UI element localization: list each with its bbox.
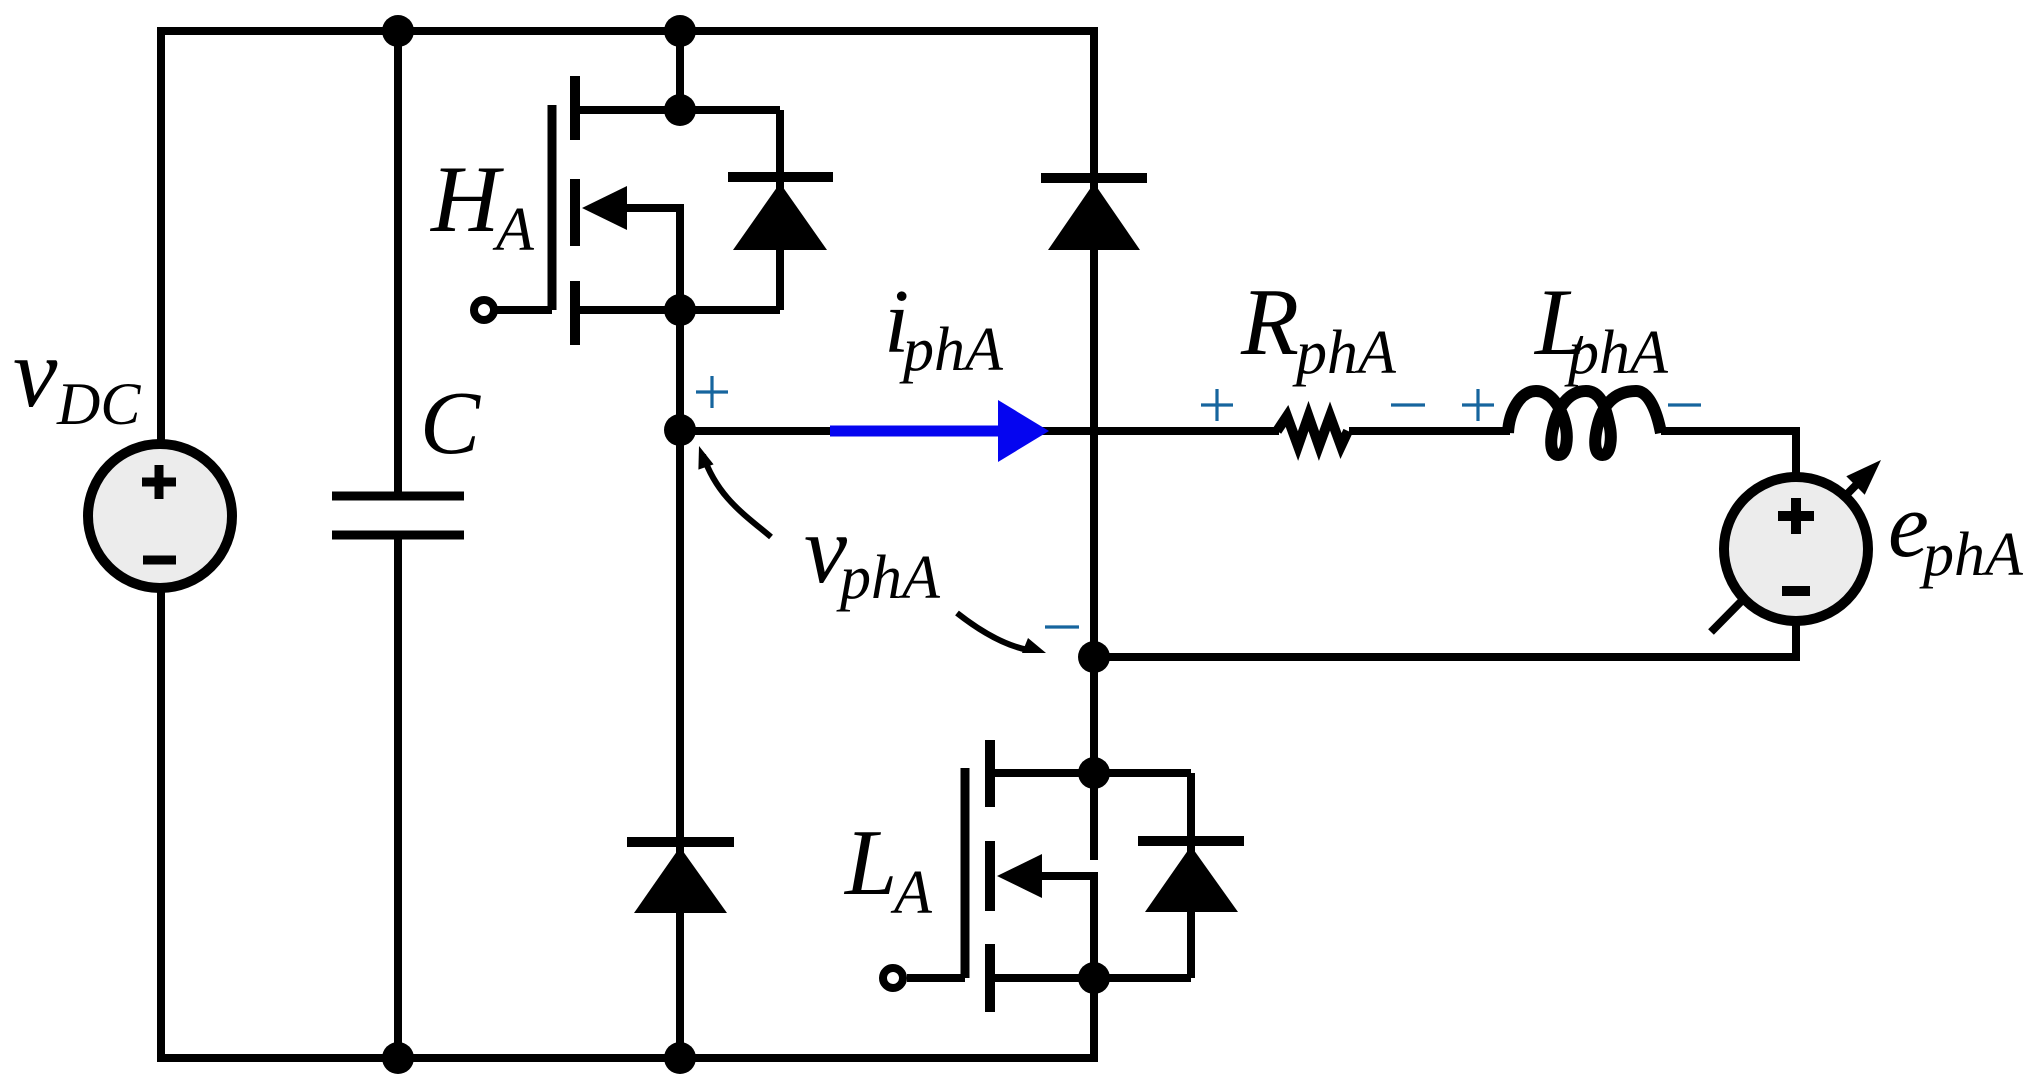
channel dash top (985, 740, 995, 807)
svg-text:L: L (843, 811, 897, 915)
node phase- terminal (1078, 641, 1110, 673)
label LphA (1533, 269, 1669, 387)
wire: between resistor and inductor (1349, 427, 1510, 435)
minus sign vphA- (1045, 625, 1079, 628)
wire: capacitor branch upper (394, 31, 402, 492)
wire: from inductor to ephA corner (1661, 427, 1800, 435)
svg-text:phA: phA (1292, 319, 1397, 387)
transistor HA (high-side MOSFET) (474, 76, 780, 345)
svg-text:phA: phA (836, 544, 941, 612)
junction: top rail / capacitor branch (382, 15, 414, 47)
svg-text:C: C (420, 374, 481, 473)
source lead (986, 974, 1191, 982)
wire: HA leg from top rail to drain node (676, 31, 684, 110)
node A (phase+ terminal) (664, 414, 696, 446)
gate plate (961, 768, 970, 978)
wire: return line from ephA bottom to phase- node (1094, 620, 1796, 657)
channel dash bottom (985, 944, 995, 1012)
pointer arrow to phase+ node (698, 446, 771, 537)
channel dash middle (985, 841, 995, 911)
label RphA (1240, 269, 1397, 387)
label ephA (1888, 474, 2024, 589)
svg-text:phA: phA (1919, 521, 2024, 589)
junction: LA drain node (1078, 757, 1110, 789)
junction: HA source node (664, 294, 696, 326)
drain lead (986, 769, 1191, 777)
minus sign RphA right (1391, 403, 1425, 406)
gate terminal circle (883, 968, 903, 988)
svg-text:H: H (429, 146, 504, 252)
inductor LphA (1508, 391, 1661, 455)
diode D3 (lower freewheel diode on left leg) (627, 842, 734, 913)
label LA (843, 811, 933, 927)
wire: phase output line from phase node to resistor (680, 427, 1279, 435)
channel dash middle (570, 179, 580, 246)
plus sign vphA+ (696, 376, 728, 408)
svg-text:A: A (492, 196, 535, 264)
body arrow (997, 854, 1042, 898)
junction: HA drain node (664, 94, 696, 126)
svg-text:phA: phA (899, 316, 1004, 384)
diode D2 (upper freewheel diode on right leg) (1041, 178, 1147, 250)
current arrow iphA (830, 400, 1049, 462)
source ephA (back-EMF source) (1724, 477, 1868, 621)
gate lead (494, 306, 552, 314)
diode D4 (LA body diode) (1138, 773, 1244, 978)
capacitor C plates (332, 496, 464, 535)
wire: top DC+ rail with left rail upper segment and right leg upper segment (161, 31, 1094, 860)
diode D1 (HA body diode) (728, 110, 833, 310)
gate terminal circle (474, 300, 494, 320)
voltage source vDC (88, 444, 232, 588)
svg-text:R: R (1240, 269, 1299, 375)
svg-text:phA: phA (1564, 319, 1669, 387)
wire: capacitor branch lower (394, 539, 402, 1058)
gate lead (907, 974, 965, 982)
wire: HA leg from source node through phase node down to bottom rail (676, 310, 684, 1058)
channel dash bottom (570, 281, 580, 345)
label vphA (804, 496, 941, 612)
wire: bottom DC- rail with left rail lower segment and right leg lower segment (161, 590, 1094, 1058)
junction: bottom rail / left leg (664, 1042, 696, 1074)
pointer arrow to phase- node (957, 613, 1046, 653)
source lead (571, 306, 780, 314)
label HA (429, 146, 535, 264)
source ephA variable-arrow line (1711, 481, 1860, 632)
body arrow (582, 186, 627, 230)
channel dash top (570, 76, 580, 140)
plus sign RphA left (1201, 389, 1233, 421)
svg-text:v: v (13, 317, 58, 428)
junction: bottom rail / capacitor branch (382, 1042, 414, 1074)
svg-text:DC: DC (56, 371, 141, 437)
body-to-source corner wire (1015, 876, 1094, 978)
gate plate (548, 105, 557, 310)
transistor LA (low-side MOSFET) (883, 740, 1191, 1012)
junction: top rail / HA leg (664, 15, 696, 47)
label iphA (884, 271, 1004, 384)
svg-text:A: A (890, 859, 933, 927)
plus sign LphA left (1462, 389, 1494, 421)
minus sign LphA right (1668, 403, 1701, 406)
junction: LA source node (1078, 962, 1110, 994)
drain lead (571, 106, 780, 114)
body-to-source corner wire (600, 208, 680, 310)
source ephA arrowhead (1846, 460, 1881, 495)
wire: down into ephA source (1792, 427, 1800, 478)
label vDC (13, 317, 141, 437)
resistor RphA (1277, 416, 1348, 446)
